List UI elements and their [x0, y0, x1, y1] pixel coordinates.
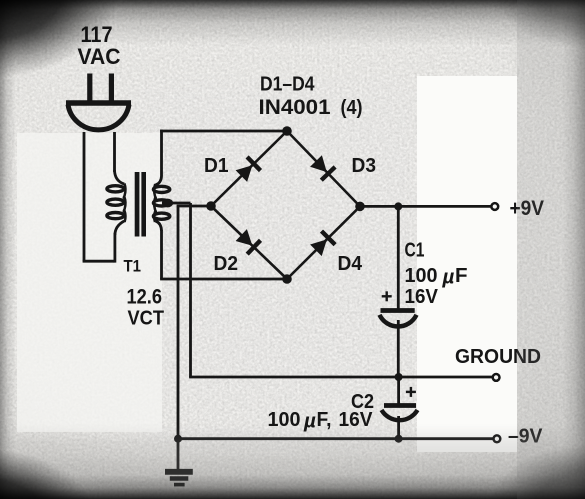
svg-text:µ: µ — [442, 266, 455, 289]
diode D3 — [310, 155, 335, 180]
capacitor C1 plus sign — [382, 295, 392, 297]
transformer T1 secondary winding — [153, 186, 169, 219]
node C1 top junction — [394, 202, 402, 210]
wire plug left lead — [83, 132, 86, 261]
wire bridge left node to -9V rail — [177, 205, 211, 208]
-9V rail wire — [178, 437, 494, 440]
diode D4 — [310, 231, 335, 256]
bridge edge D4 wire — [287, 206, 360, 279]
capacitor C2 lead top — [397, 377, 400, 404]
svg-text:(4): (4) — [341, 97, 363, 119]
bridge edge D1 wire — [211, 131, 287, 206]
svg-text:F: F — [455, 264, 468, 287]
wire plug right lead — [113, 132, 116, 172]
svg-text:VCT: VCT — [128, 306, 165, 329]
transformer T1 core — [135, 172, 140, 237]
transformer center tap — [162, 199, 173, 208]
terminal +9V — [491, 203, 498, 210]
svg-text:D2: D2 — [214, 253, 239, 275]
terminal -9V — [494, 435, 501, 442]
diode D1 — [236, 157, 261, 182]
wire primary bottom — [83, 260, 115, 263]
AC plug body — [66, 103, 131, 130]
node C2 bottom junction — [395, 435, 403, 443]
svg-text:16V: 16V — [339, 408, 373, 431]
transformer T1 primary winding — [107, 186, 124, 219]
diode D2 — [236, 229, 261, 254]
wire secondary bottom to bridge — [160, 230, 163, 279]
bridge edge D3 wire — [287, 131, 360, 206]
ground symbol — [165, 439, 193, 485]
svg-text:µ: µ — [303, 410, 316, 433]
ground rail wire — [189, 376, 493, 379]
capacitor C2 plates — [382, 406, 418, 421]
capacitor C2 lead bottom — [397, 416, 400, 439]
svg-text:100: 100 — [405, 264, 438, 287]
svg-text:D4: D4 — [338, 253, 363, 275]
capacitor C1 lead top — [397, 206, 400, 308]
wire secondary top to bridge — [160, 130, 163, 176]
svg-text:F,: F, — [317, 408, 332, 431]
svg-text:D3: D3 — [352, 155, 377, 177]
node bridge bottom — [282, 274, 292, 284]
node -9V ground junction — [174, 435, 182, 443]
node bridge top — [282, 126, 292, 136]
bridge edge D2 wire — [211, 206, 287, 279]
+9V rail wire — [360, 205, 491, 208]
wire center tap to ground rail — [167, 202, 191, 205]
svg-text:D1: D1 — [204, 155, 229, 177]
terminal GROUND — [493, 374, 500, 381]
svg-text:D1–D4: D1–D4 — [260, 74, 315, 96]
capacitor C1 lead bottom — [397, 320, 400, 377]
svg-text:T1: T1 — [124, 257, 142, 276]
node bridge left — [206, 201, 216, 211]
AC plug prong left — [87, 74, 92, 103]
svg-text:100: 100 — [268, 408, 301, 431]
capacitor C2 plus sign — [406, 391, 416, 393]
AC plug prong right — [109, 74, 114, 103]
capacitor C1 plates — [380, 311, 417, 327]
svg-text:12.6: 12.6 — [127, 286, 163, 309]
svg-text:IN4001: IN4001 — [259, 96, 331, 119]
node C1 bottom junction — [395, 373, 403, 381]
svg-text:C1: C1 — [405, 239, 425, 261]
node bridge right — [355, 202, 365, 212]
svg-text:16V: 16V — [405, 285, 439, 308]
